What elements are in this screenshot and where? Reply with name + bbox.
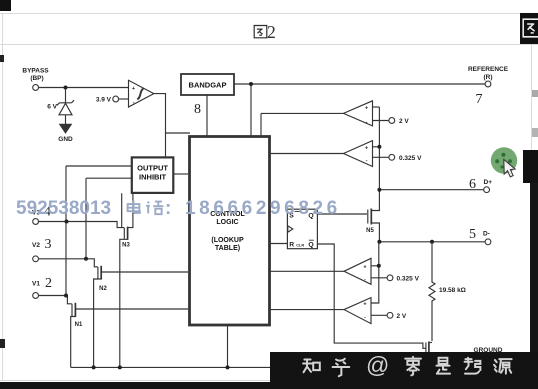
svg-text:+: + bbox=[363, 264, 366, 270]
svg-text:V1: V1 bbox=[32, 281, 40, 288]
svg-text:BYPASS: BYPASS bbox=[22, 68, 49, 75]
svg-text:TABLE): TABLE) bbox=[215, 245, 240, 252]
svg-text:(LOOKUP: (LOOKUP bbox=[211, 237, 244, 244]
svg-text:19.58 kΩ: 19.58 kΩ bbox=[439, 287, 466, 294]
svg-text:INHIBIT: INHIBIT bbox=[139, 173, 167, 182]
svg-text:N5: N5 bbox=[366, 228, 374, 234]
svg-text:REFERENCE: REFERENCE bbox=[468, 66, 509, 73]
svg-text:OUTPUT: OUTPUT bbox=[137, 164, 168, 173]
svg-text:D-: D- bbox=[483, 231, 490, 238]
svg-text:-: - bbox=[133, 100, 135, 106]
svg-text:6 V: 6 V bbox=[47, 104, 57, 111]
svg-text:R: R bbox=[289, 242, 294, 249]
svg-text:Q: Q bbox=[308, 242, 313, 249]
svg-text:8: 8 bbox=[194, 102, 201, 117]
svg-text:-: - bbox=[366, 158, 368, 164]
svg-text:+: + bbox=[365, 145, 368, 151]
svg-text:-: - bbox=[366, 120, 368, 126]
svg-text:0.325 V: 0.325 V bbox=[397, 275, 420, 282]
svg-text:N2: N2 bbox=[99, 286, 107, 292]
svg-text:-: - bbox=[364, 277, 366, 283]
svg-text:GND: GND bbox=[58, 136, 73, 143]
svg-text:2 V: 2 V bbox=[397, 313, 407, 320]
svg-text:7: 7 bbox=[476, 92, 483, 107]
svg-text:0.325 V: 0.325 V bbox=[399, 155, 422, 162]
svg-text:BANDGAP: BANDGAP bbox=[189, 81, 227, 90]
svg-text:2: 2 bbox=[45, 276, 52, 291]
svg-text:(BP): (BP) bbox=[30, 75, 43, 82]
svg-text:LOGIC: LOGIC bbox=[216, 219, 238, 226]
svg-text:3.9 V: 3.9 V bbox=[96, 97, 112, 104]
svg-text:N1: N1 bbox=[75, 322, 83, 328]
svg-text:N3: N3 bbox=[122, 243, 130, 249]
svg-text:+: + bbox=[365, 106, 368, 112]
svg-text:V2: V2 bbox=[32, 242, 40, 249]
svg-text:+: + bbox=[363, 302, 366, 308]
svg-text:3: 3 bbox=[45, 237, 52, 252]
svg-text:-: - bbox=[364, 315, 366, 321]
svg-text:5: 5 bbox=[469, 227, 476, 242]
svg-text:(R): (R) bbox=[483, 74, 492, 81]
svg-text:D+: D+ bbox=[484, 179, 493, 186]
svg-text:+: + bbox=[132, 86, 135, 92]
svg-text:6: 6 bbox=[469, 177, 476, 192]
svg-text:CLR: CLR bbox=[296, 243, 304, 247]
svg-text:2 V: 2 V bbox=[399, 118, 409, 125]
